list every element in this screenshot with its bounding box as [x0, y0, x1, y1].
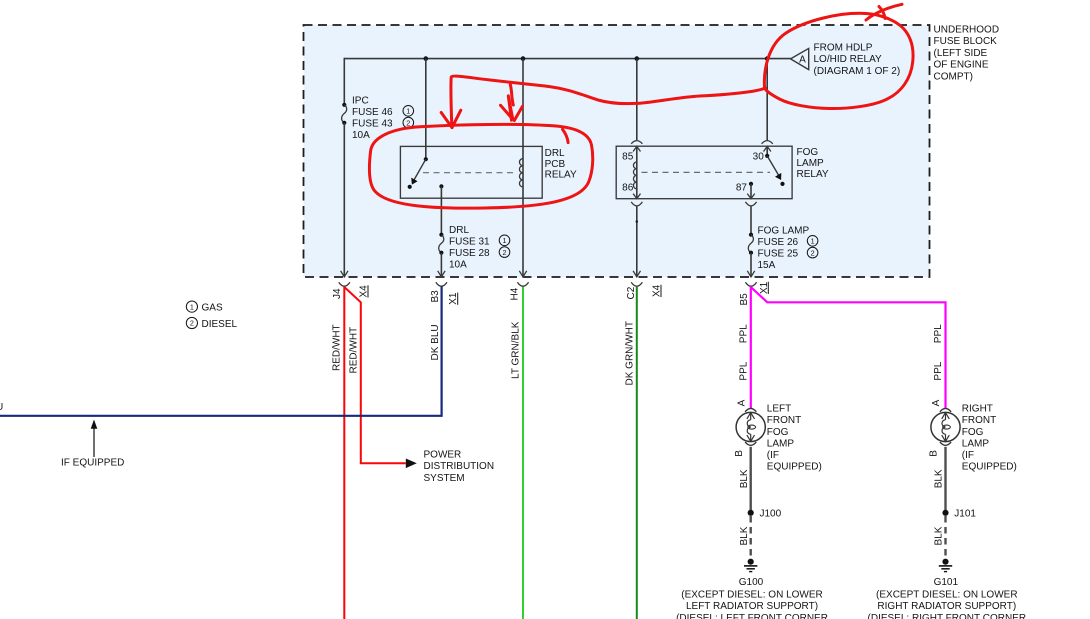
svg-text:B3: B3	[430, 290, 441, 303]
svg-text:LEFT RADIATOR SUPPORT): LEFT RADIATOR SUPPORT)	[686, 601, 818, 612]
svg-text:PPL: PPL	[738, 361, 749, 380]
connector B5/X1 arc	[745, 282, 756, 286]
arrow at fuse block border on coil column	[519, 271, 526, 277]
red annotation: loop around DRL PCB relay	[369, 124, 592, 208]
svg-text:FUSE 46: FUSE 46	[352, 107, 393, 118]
svg-text:SYSTEM: SYSTEM	[424, 473, 465, 484]
fuse DRL FUSE 31/28 10A	[439, 233, 443, 237]
node: bus junction at DRL coil	[521, 56, 526, 61]
svg-text:BLK: BLK	[934, 526, 945, 545]
svg-text:RELAY: RELAY	[545, 170, 577, 181]
wire: IPC fuse down to connector J4	[343, 123, 345, 277]
svg-text:DK GRN/WHT: DK GRN/WHT	[625, 321, 636, 385]
svg-text:DRL: DRL	[545, 148, 565, 159]
svg-text:B: B	[929, 450, 940, 457]
svg-text:J101: J101	[954, 509, 976, 520]
svg-text:30: 30	[753, 151, 765, 162]
connector arc at pin 85	[631, 141, 642, 144]
lamp E1: LEFT FRONT FOG LAMP	[736, 412, 765, 441]
wire BLK left lamp to J100	[750, 447, 752, 511]
label: DRL FUSE 31 / FUSE 28 10A	[449, 225, 490, 271]
svg-text:X4: X4	[652, 284, 663, 297]
wire BLK right lamp to J101	[944, 447, 946, 511]
svg-text:COMPT): COMPT)	[934, 71, 973, 82]
red annotation: pen tail on DRL loop	[563, 129, 569, 142]
fog relay switch stationary contact	[780, 182, 784, 186]
fuse IPC FUSE 46/43 10A	[342, 103, 346, 107]
wire: DRL relay output down to DRL fuse	[440, 186, 442, 234]
DRL relay switch movable contact arm	[414, 159, 426, 181]
svg-text:FRONT: FRONT	[962, 415, 996, 426]
svg-text:G101: G101	[934, 577, 959, 588]
svg-text:A: A	[931, 399, 942, 406]
svg-text:A: A	[737, 399, 748, 406]
fuse FOG LAMP FUSE 26/25 15A	[749, 233, 753, 237]
wire: bus through DRL relay coil column	[522, 59, 524, 277]
wire: pin 87 to fog lamp fuse	[750, 206, 752, 234]
svg-text:2: 2	[811, 248, 815, 257]
connector arc below pin 87	[745, 202, 756, 206]
value marker circled 1 for fuse 26	[807, 236, 818, 247]
label: UNDERHOOD FUSE BLOCK	[934, 25, 1000, 83]
splice node J101	[942, 510, 948, 516]
label: FOG LAMP FUSE 26 / FUSE 25 15A	[758, 226, 810, 272]
svg-text:(IF: (IF	[962, 450, 974, 461]
splice node J100	[748, 510, 754, 516]
svg-text:B: B	[734, 450, 745, 457]
wire RED/WHT from J4 down off page	[343, 287, 345, 619]
svg-text:G100: G100	[739, 577, 764, 588]
dashed actuation link in fog relay	[642, 171, 771, 173]
wire: bus to fog relay pin 85	[636, 59, 638, 141]
svg-text:IPC: IPC	[352, 96, 369, 107]
svg-text:FOG: FOG	[797, 147, 819, 158]
connector B3/X1 arc	[436, 282, 447, 286]
wire: fog lamp fuse to connector B5	[750, 253, 752, 277]
DRL relay coil	[519, 159, 523, 187]
left fog lamp connector arc B	[745, 442, 756, 445]
label: DRL PCB RELAY	[545, 148, 577, 181]
red annotation: loop around HDLP note	[764, 13, 913, 108]
svg-text:(DIESEL: LEFT FRONT CORNER: (DIESEL: LEFT FRONT CORNER	[676, 613, 828, 619]
svg-text:J100: J100	[760, 509, 782, 520]
svg-text:X1: X1	[759, 281, 770, 294]
wire: pin 30 stub to switch node	[766, 146, 768, 156]
svg-text:EQUIPPED): EQUIPPED)	[767, 461, 822, 472]
node: bus junction at DRL switch	[424, 56, 429, 61]
svg-text:FOG: FOG	[962, 427, 984, 438]
value marker circled 2 (diesel) for fuse 43	[403, 117, 414, 128]
left fog lamp connector arc A	[745, 408, 756, 411]
svg-text:DISTRIBUTION: DISTRIBUTION	[424, 461, 495, 472]
svg-text:POWER: POWER	[424, 449, 462, 460]
label: RIGHT FRONT FOG LAMP (IF EQUIPPED)	[962, 404, 1017, 473]
svg-text:IF EQUIPPED: IF EQUIPPED	[61, 457, 124, 468]
relay K1: FOG LAMP RELAY box	[616, 146, 792, 199]
svg-text:B5: B5	[739, 293, 750, 306]
label: FOG LAMP RELAY	[797, 147, 829, 180]
svg-text:BLK: BLK	[739, 469, 750, 488]
svg-text:(DIESEL: RIGHT FRONT CORNER: (DIESEL: RIGHT FRONT CORNER	[868, 613, 1027, 619]
svg-text:OF ENGINE: OF ENGINE	[934, 60, 989, 71]
svg-text:10A: 10A	[449, 260, 467, 271]
red annotation: arrow 1 head	[441, 113, 452, 128]
connector arc below pin 86	[631, 202, 642, 206]
fog relay switch common node	[765, 154, 769, 158]
svg-text:U: U	[0, 402, 3, 413]
svg-text:RIGHT RADIATOR SUPPORT): RIGHT RADIATOR SUPPORT)	[877, 601, 1016, 612]
value marker circled 2 for fuse 28	[499, 247, 510, 258]
IF EQUIPPED pointer arrow	[93, 428, 95, 457]
svg-text:FROM HDLP: FROM HDLP	[814, 42, 873, 53]
node: bus junction at fog relay pin 30	[765, 56, 770, 61]
svg-text:EQUIPPED): EQUIPPED)	[962, 461, 1017, 472]
pin 86 exit arrow at relay edge	[633, 194, 640, 199]
wire: bus to IPC fuse	[343, 58, 345, 105]
svg-text:DK BLU: DK BLU	[430, 324, 441, 360]
pin 85 entry chevron	[633, 146, 640, 151]
svg-text:RIGHT: RIGHT	[962, 404, 993, 415]
node: bus junction at fog relay coil	[635, 56, 640, 61]
wire BLK dashed J101 to ground	[944, 516, 946, 557]
svg-text:J4: J4	[332, 288, 343, 299]
wire: fog relay coil column	[636, 146, 638, 198]
svg-text:1: 1	[811, 237, 815, 246]
svg-text:DRL: DRL	[449, 225, 469, 236]
wire PPL from B5 to left fog lamp	[750, 287, 752, 409]
svg-text:85: 85	[622, 151, 634, 162]
connector C2/X4 arc	[631, 282, 642, 286]
svg-text:FUSE 31: FUSE 31	[449, 237, 490, 248]
svg-text:GAS: GAS	[202, 302, 223, 313]
wire: bus to fog relay pin 30	[766, 59, 768, 141]
dashed actuation link in DRL relay	[423, 172, 517, 174]
svg-text:PPL: PPL	[933, 361, 944, 380]
svg-text:BLK: BLK	[739, 526, 750, 545]
wire RED/WHT branch to power distribution	[344, 287, 406, 463]
svg-text:FUSE 25: FUSE 25	[758, 249, 799, 260]
svg-text:LAMP: LAMP	[767, 438, 795, 449]
svg-text:RED/WHT: RED/WHT	[332, 324, 343, 371]
splice tick on pin 86 wire	[636, 220, 639, 223]
wire: DRL fuse to connector B3	[440, 253, 442, 277]
svg-text:C2: C2	[626, 286, 637, 299]
svg-text:X4: X4	[359, 285, 370, 298]
red annotation: arrow 2	[510, 85, 513, 106]
svg-text:(DIAGRAM 1 OF 2): (DIAGRAM 1 OF 2)	[814, 66, 901, 77]
svg-text:(IF: (IF	[767, 450, 779, 461]
svg-text:86: 86	[622, 183, 634, 194]
fog relay coil	[633, 162, 636, 189]
label: LEFT FRONT FOG LAMP (IF EQUIPPED)	[767, 404, 822, 473]
svg-text:X1: X1	[448, 292, 459, 305]
svg-text:FOG: FOG	[767, 427, 789, 438]
svg-text:PPL: PPL	[738, 324, 749, 343]
red annotation: arrow 1 shaft and long wavy line	[369, 4, 913, 208]
svg-text:FUSE BLOCK: FUSE BLOCK	[934, 36, 998, 47]
label: IPC FUSE 46 / FUSE 43 10A	[352, 96, 393, 142]
wire: top supply bus	[344, 58, 790, 60]
pin 87 node	[749, 182, 753, 186]
svg-text:PPL: PPL	[933, 324, 944, 343]
svg-text:15A: 15A	[758, 260, 776, 271]
red annotation: pen tail on HDLP loop	[866, 4, 902, 20]
svg-text:FRONT: FRONT	[767, 415, 801, 426]
wire DK BLU from B3 to left edge	[0, 286, 442, 415]
svg-text:1: 1	[503, 236, 507, 245]
svg-text:LO/HID RELAY: LO/HID RELAY	[814, 54, 882, 65]
DRL relay switch common node	[424, 157, 428, 161]
svg-text:1: 1	[190, 302, 194, 311]
svg-text:LAMP: LAMP	[962, 438, 990, 449]
svg-text:DIESEL: DIESEL	[202, 319, 238, 330]
svg-text:FUSE 28: FUSE 28	[449, 248, 490, 259]
svg-text:LT GRN/BLK: LT GRN/BLK	[511, 321, 522, 379]
fog relay switch movable contact arm	[767, 156, 779, 177]
connector J4/X4 arc	[339, 282, 350, 286]
DRL relay switch stationary contact (NC)	[408, 185, 412, 189]
svg-text:RED/WHT: RED/WHT	[349, 327, 360, 374]
svg-text:FUSE 26: FUSE 26	[758, 237, 799, 248]
svg-text:BLK: BLK	[934, 469, 945, 488]
svg-text:(EXCEPT DIESEL: ON LOWER: (EXCEPT DIESEL: ON LOWER	[681, 589, 823, 600]
svg-text:10A: 10A	[352, 130, 370, 141]
right fog lamp connector arc B	[940, 442, 951, 445]
svg-text:1: 1	[406, 107, 410, 116]
legend circled 1 GAS	[186, 301, 197, 312]
ground G101	[939, 559, 952, 572]
svg-text:LAMP: LAMP	[797, 158, 825, 169]
svg-text:A: A	[799, 54, 806, 65]
connector arc at pin 30	[762, 141, 773, 144]
svg-text:UNDERHOOD: UNDERHOOD	[934, 25, 1000, 36]
value marker circled 1 for fuse 31	[499, 235, 510, 246]
label: POWER DISTRIBUTION SYSTEM	[424, 449, 495, 484]
wire: bus to DRL relay switch	[425, 59, 427, 160]
ground G100	[744, 559, 757, 572]
svg-text:FUSE 43: FUSE 43	[352, 119, 393, 130]
wire DK GRN/WHT from C2 down off page	[636, 287, 638, 619]
wire LT GRN/BLK from H4 down off page	[522, 287, 524, 619]
svg-text:2: 2	[406, 118, 410, 127]
svg-text:FOG LAMP: FOG LAMP	[758, 226, 810, 237]
value marker circled 2 for fuse 25	[807, 247, 818, 258]
right fog lamp connector arc A	[940, 408, 951, 411]
svg-text:LEFT: LEFT	[767, 404, 791, 415]
legend circled 2 DIESEL	[186, 317, 197, 328]
svg-text:87: 87	[736, 183, 748, 194]
svg-text:2: 2	[190, 319, 194, 328]
svg-text:H4: H4	[509, 287, 520, 300]
svg-text:RELAY: RELAY	[797, 169, 829, 180]
value marker circled 1 (gas) for fuse 46	[403, 106, 414, 117]
wire BLK dashed J100 to ground	[750, 516, 752, 557]
label: FROM HDLP LO/HID RELAY (DIAGRAM 1 OF 2)	[814, 42, 901, 77]
connector A triangle: FROM HDLP LO/HID RELAY	[791, 48, 809, 69]
svg-text:(EXCEPT DIESEL: ON LOWER: (EXCEPT DIESEL: ON LOWER	[876, 589, 1018, 600]
lamp E2: RIGHT FRONT FOG LAMP	[931, 412, 960, 441]
arrow to POWER DISTRIBUTION SYSTEM	[406, 459, 417, 469]
svg-text:(LEFT SIDE: (LEFT SIDE	[934, 48, 988, 59]
DRL relay switch output contact node	[439, 184, 443, 188]
wire: pin 87 to relay edge	[750, 184, 752, 199]
wire PPL branch to right fog lamp	[751, 287, 946, 408]
relay U2: DRL PCB RELAY box	[400, 146, 542, 198]
connector H4 arc	[517, 282, 528, 286]
wire: pin 86 to connector C2	[636, 206, 638, 276]
svg-text:PCB: PCB	[545, 159, 566, 170]
underhood fuse block	[304, 25, 930, 277]
svg-text:2: 2	[503, 248, 507, 257]
pin 30 entry chevron	[764, 146, 771, 151]
